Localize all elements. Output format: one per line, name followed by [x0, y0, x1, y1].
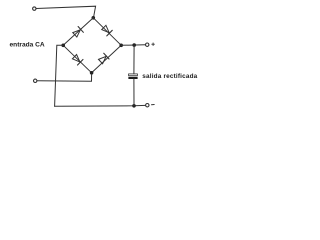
wire left node to left stub	[55, 45, 64, 106]
capacitor C1 bottom plate	[128, 77, 137, 79]
wire AC2 bottom-left terminal to bottom node	[37, 74, 92, 81]
wire bottom rail	[55, 104, 146, 107]
wire top AC1 to top node	[36, 6, 95, 17]
wire diamond bottom-right	[92, 45, 122, 73]
node right (DC plus)	[119, 44, 123, 48]
terminal AC top-left	[33, 7, 36, 10]
capacitor C1 top plate	[129, 74, 138, 76]
diode D4 bottom-to-right	[98, 53, 109, 64]
terminal DC plus	[146, 43, 149, 46]
diode D1 left-to-top	[72, 27, 83, 38]
node junction right (cap plus)	[132, 43, 136, 47]
node top (AC1)	[92, 16, 96, 20]
svg-text:entrada CA: entrada CA	[10, 42, 45, 49]
diode D3 left-to-bottom	[72, 54, 83, 65]
terminal AC bottom-left	[34, 79, 37, 82]
wire capacitor bottom to bottom rail	[133, 79, 135, 106]
terminal DC minus	[146, 104, 149, 107]
wire right node to DC plus terminal	[121, 44, 145, 47]
node left (DC minus)	[61, 44, 65, 48]
node bottom (AC2)	[90, 71, 94, 75]
plus sign	[152, 43, 155, 46]
minus sign	[152, 104, 155, 106]
svg-text:salida rectificada: salida rectificada	[142, 73, 197, 80]
diode D2 top-to-right	[101, 25, 112, 36]
wire junction to capacitor top	[133, 45, 135, 74]
wire diamond top-right	[93, 18, 121, 46]
node junction bottom (cap minus)	[132, 104, 136, 108]
wire diamond left-bottom	[63, 45, 91, 73]
wire diamond left-top	[63, 18, 93, 46]
